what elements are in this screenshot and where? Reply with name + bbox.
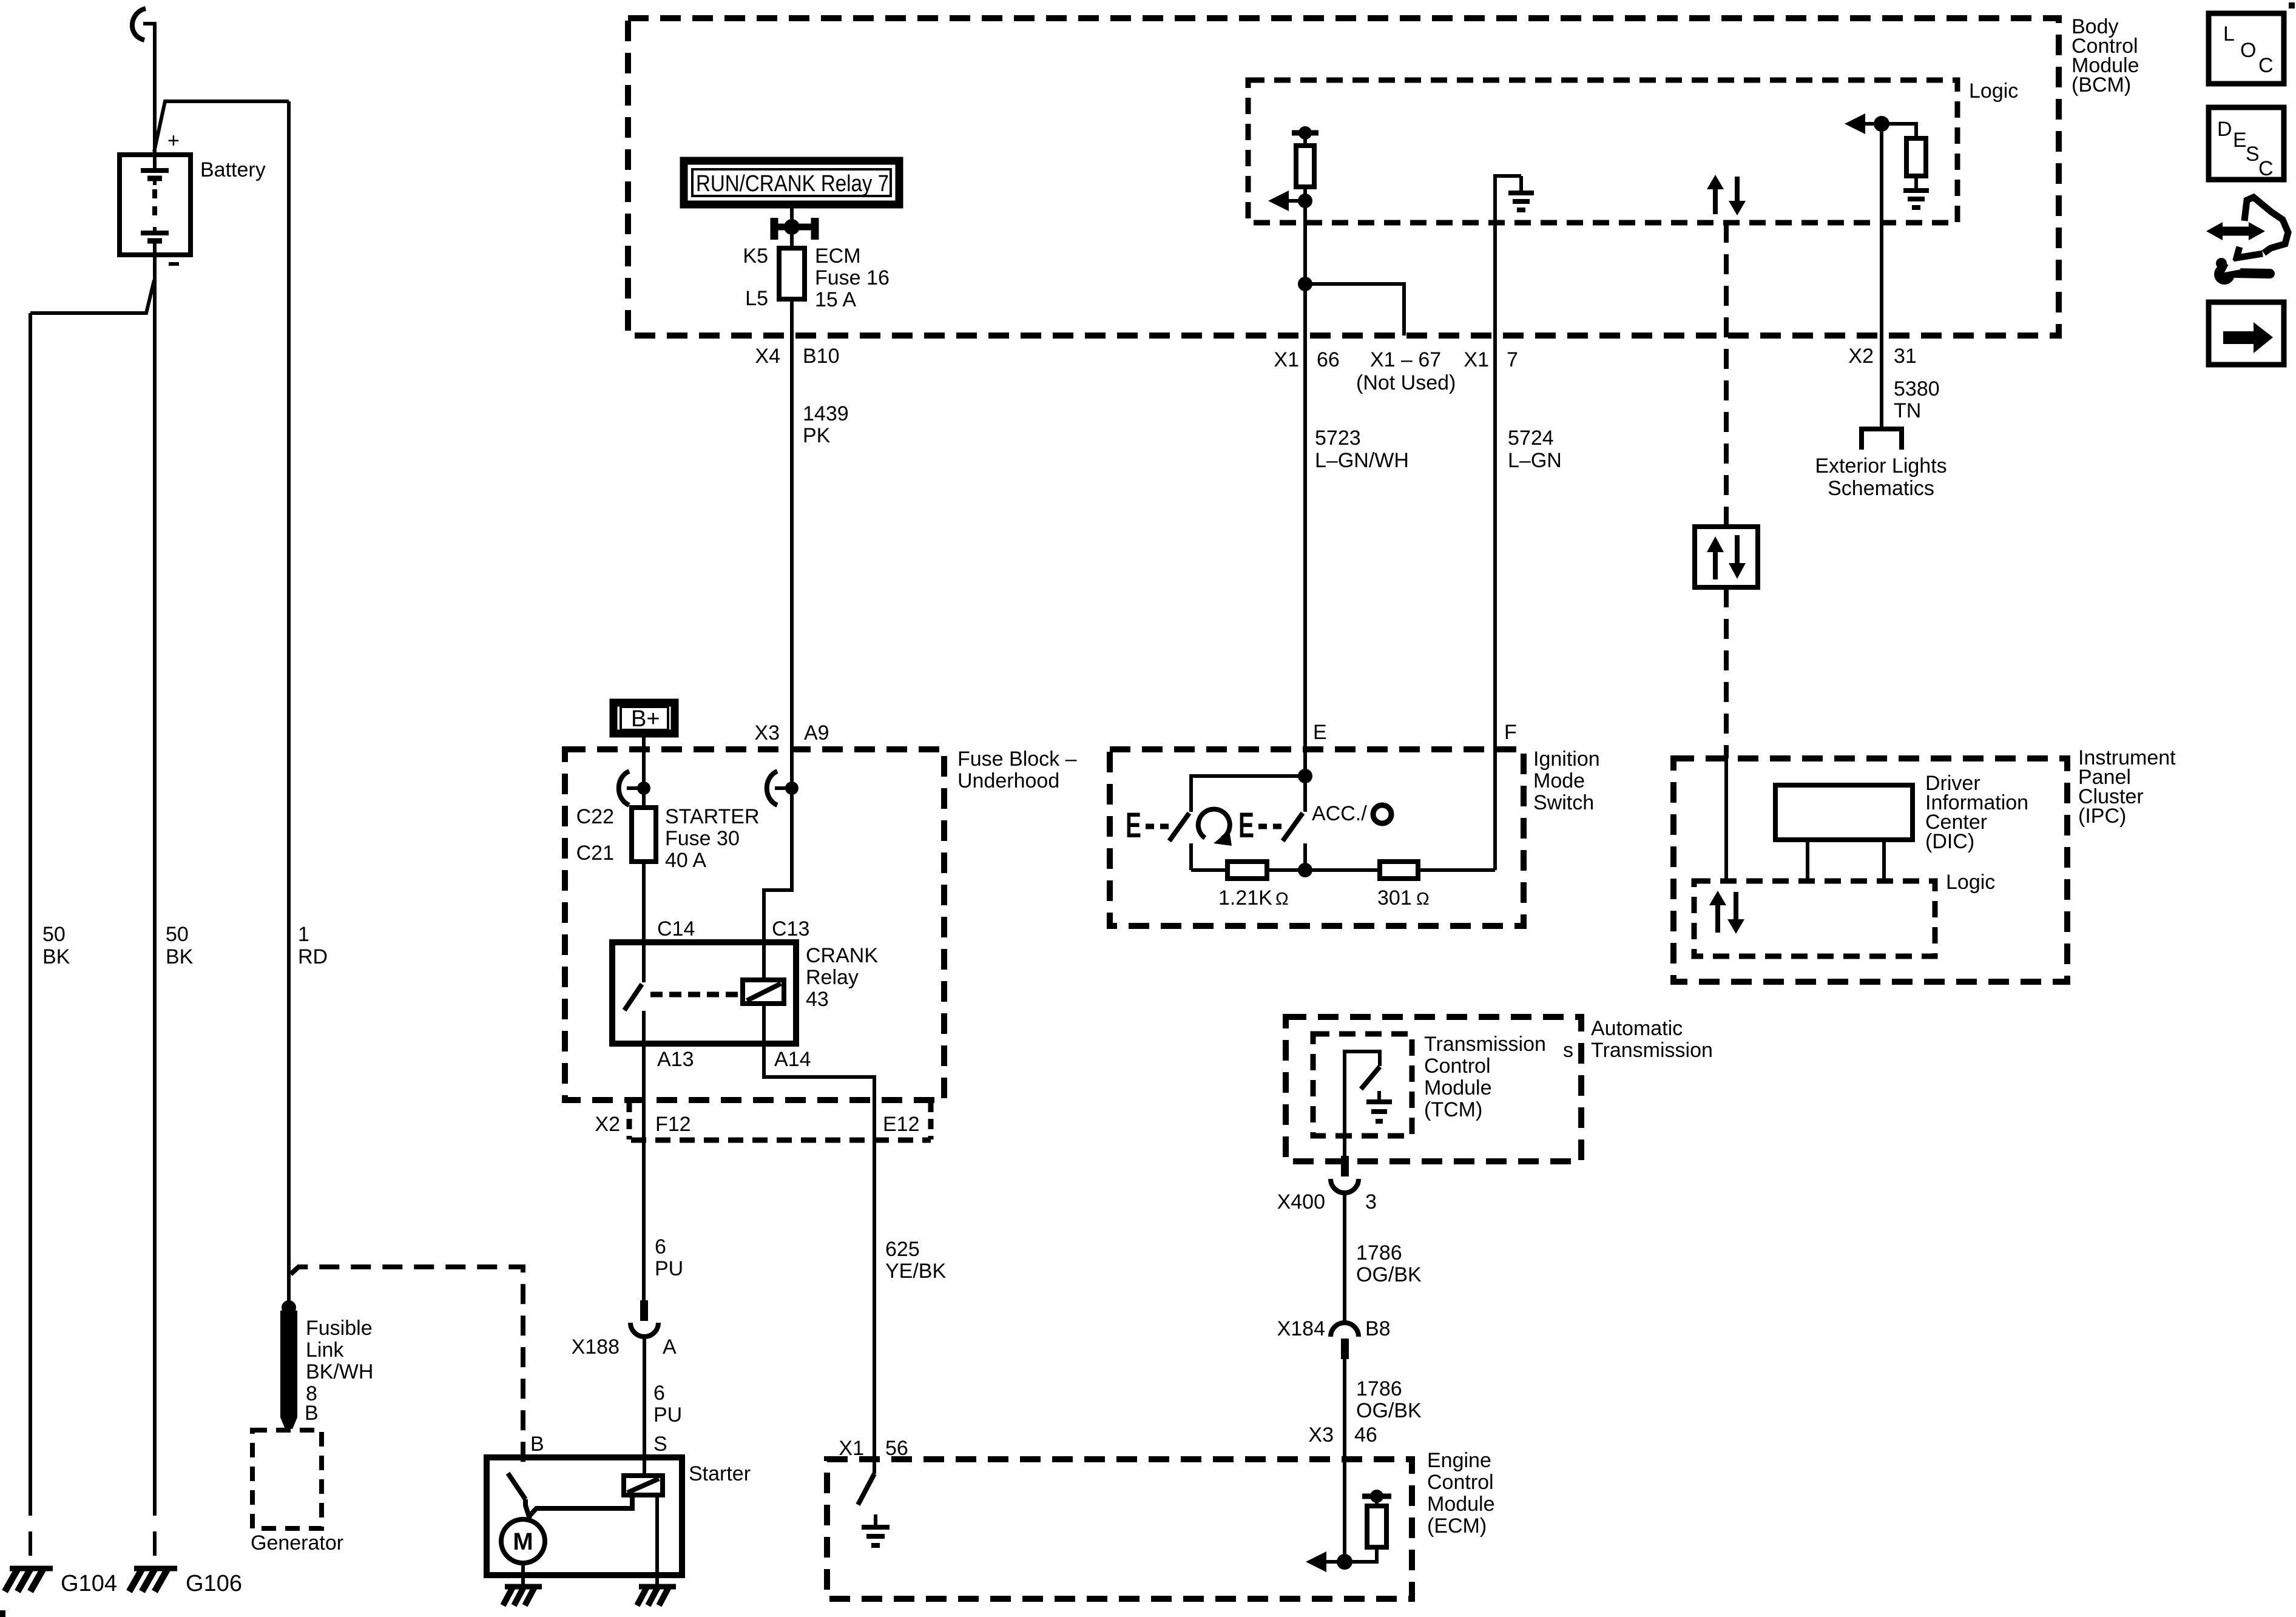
automatic transmission dashed box bbox=[1286, 1017, 1581, 1161]
resistor pull-up (ECM input 46) bbox=[1345, 1490, 1391, 1562]
svg-text:E: E bbox=[1238, 806, 1254, 845]
wire A14 from coil with jog to E12 bbox=[764, 1004, 874, 1140]
svg-text:Transmission: Transmission bbox=[1591, 1039, 1713, 1062]
icon DESC box bbox=[2209, 107, 2284, 180]
svg-text:Engine: Engine bbox=[1427, 1449, 1491, 1472]
battery - terminal label bbox=[169, 262, 179, 266]
serial data arrows (IPC logic) bbox=[1709, 891, 1744, 934]
wire motor to case ground bbox=[521, 1563, 525, 1586]
svg-text:50: 50 bbox=[42, 923, 66, 946]
resistor 1.21K bbox=[1227, 862, 1267, 879]
svg-text:F12: F12 bbox=[655, 1113, 691, 1136]
svg-text:Relay: Relay bbox=[806, 966, 859, 989]
relay switch bottom contact stub bbox=[642, 1011, 646, 1044]
svg-text:43: 43 bbox=[806, 988, 829, 1011]
svg-text:Fuse 30: Fuse 30 bbox=[665, 827, 740, 850]
ground starter solenoid bbox=[637, 1587, 676, 1605]
relay name label bbox=[806, 944, 878, 1011]
svg-text:(Not Used): (Not Used) bbox=[1356, 371, 1456, 394]
svg-text:STARTER: STARTER bbox=[665, 805, 760, 828]
svg-text:M: M bbox=[513, 1528, 533, 1555]
svg-text:Logic: Logic bbox=[1946, 871, 1995, 894]
ECM internal switch to ground bbox=[858, 1474, 874, 1505]
icon arrow box bbox=[2209, 302, 2284, 365]
svg-text:B8: B8 bbox=[1365, 1317, 1391, 1340]
svg-text:E: E bbox=[1126, 806, 1141, 845]
svg-text:Fuse Block –: Fuse Block – bbox=[957, 748, 1077, 771]
svg-text:L–GN: L–GN bbox=[1508, 449, 1562, 472]
wire E branch to run contact bbox=[1191, 776, 1305, 812]
icon LOC box bbox=[2209, 13, 2284, 84]
svg-text:(IPC): (IPC) bbox=[2078, 805, 2126, 828]
relay switch blade bbox=[624, 984, 642, 1010]
svg-text:1: 1 bbox=[298, 923, 309, 946]
svg-text:L–GN/WH: L–GN/WH bbox=[1315, 449, 1409, 472]
fuse block label bbox=[957, 748, 1077, 792]
svg-text:E: E bbox=[1313, 721, 1327, 744]
svg-text:YE/BK: YE/BK bbox=[885, 1260, 946, 1283]
svg-text:Ω: Ω bbox=[1416, 890, 1430, 909]
svg-text:(BCM): (BCM) bbox=[2071, 73, 2131, 96]
svg-text:(TCM): (TCM) bbox=[1424, 1098, 1482, 1121]
wire relay to ECM fuse bbox=[790, 208, 794, 248]
BCM label bbox=[2071, 15, 2139, 96]
svg-text:Module: Module bbox=[1424, 1076, 1492, 1099]
node junction X1-67 stub bbox=[1298, 277, 1312, 291]
ground TCM internal bbox=[1366, 1091, 1392, 1121]
svg-text:F: F bbox=[1504, 721, 1517, 744]
BCM logic dashed box bbox=[1248, 80, 1957, 223]
svg-text:66: 66 bbox=[1317, 348, 1340, 371]
wire DIC leg right bbox=[1882, 840, 1886, 881]
svg-text:X400: X400 bbox=[1277, 1190, 1325, 1214]
node junction BCM input 66 bbox=[1298, 194, 1312, 208]
wire acc contact lower stub bbox=[1303, 843, 1307, 870]
svg-text:X184: X184 bbox=[1277, 1317, 1325, 1340]
svg-text:Generator: Generator bbox=[251, 1531, 343, 1555]
transmission control module dashed box bbox=[1313, 1034, 1412, 1136]
wire E down to acc contact bbox=[1303, 776, 1307, 812]
svg-text:X3: X3 bbox=[754, 721, 780, 744]
svg-text:625: 625 bbox=[885, 1238, 920, 1261]
wire BCM 31 down bbox=[1880, 124, 1883, 428]
svg-text:C14: C14 bbox=[657, 917, 695, 940]
battery internal plates bbox=[141, 155, 169, 255]
svg-text:50: 50 bbox=[166, 923, 189, 946]
icon wrench bbox=[2214, 258, 2270, 285]
battery Battery bbox=[120, 155, 191, 255]
svg-text:15 A: 15 A bbox=[815, 288, 856, 311]
bus tap connector at C22 bbox=[619, 771, 650, 805]
svg-text:1786: 1786 bbox=[1356, 1241, 1402, 1264]
label exterior lights schematics bbox=[1815, 454, 1947, 500]
resistor label 1.21K ohm bbox=[1218, 886, 1289, 910]
svg-text:s: s bbox=[1563, 1039, 1573, 1062]
svg-text:+: + bbox=[167, 129, 180, 152]
svg-text:X1: X1 bbox=[1274, 348, 1299, 371]
svg-text:56: 56 bbox=[885, 1437, 908, 1460]
body control module dashed box bbox=[628, 18, 2059, 336]
wire A13/F12 down to X188 bbox=[642, 1044, 646, 1300]
ignition mode switch dashed box bbox=[1110, 749, 1524, 926]
wire resistor row left bbox=[1191, 868, 1227, 872]
svg-text:D: D bbox=[2217, 118, 2232, 141]
page corner mark top right bbox=[2289, 2, 2295, 8]
svg-text:G106: G106 bbox=[186, 1571, 242, 1596]
resistor 301 bbox=[1380, 862, 1418, 879]
DIC label bbox=[1925, 772, 2028, 853]
node junction E input bbox=[1298, 769, 1312, 783]
svg-text:Exterior Lights: Exterior Lights bbox=[1815, 454, 1947, 478]
inline connector X188 bbox=[630, 1300, 658, 1337]
svg-text:S: S bbox=[2246, 143, 2260, 166]
svg-text:PU: PU bbox=[655, 1257, 683, 1280]
svg-text:E12: E12 bbox=[883, 1113, 920, 1136]
TCM label bbox=[1424, 1033, 1546, 1121]
svg-text:(DIC): (DIC) bbox=[1925, 830, 1974, 853]
wire jog battery positive to 1 RD feed bbox=[154, 101, 289, 152]
motor M bbox=[501, 1519, 545, 1563]
svg-text:Switch: Switch bbox=[1533, 791, 1594, 814]
svg-text:Starter: Starter bbox=[689, 1462, 751, 1485]
svg-text:K5: K5 bbox=[743, 245, 768, 268]
svg-text:X4: X4 bbox=[755, 345, 780, 368]
svg-text:A: A bbox=[663, 1335, 677, 1359]
svg-text:Automatic: Automatic bbox=[1591, 1017, 1683, 1040]
svg-text:Underhood: Underhood bbox=[957, 769, 1059, 792]
icon diagnostic hand with arrow bbox=[2206, 197, 2288, 258]
ground BCM internal (input 7) bbox=[1495, 176, 1534, 336]
svg-text:6: 6 bbox=[655, 1235, 666, 1258]
svg-text:Ω: Ω bbox=[1275, 890, 1289, 909]
svg-text:5723: 5723 bbox=[1315, 427, 1361, 450]
wire hook to battery positive bbox=[143, 24, 155, 155]
svg-text:OG/BK: OG/BK bbox=[1356, 1263, 1422, 1286]
svg-text:PK: PK bbox=[803, 424, 831, 447]
wire resistor row middle bbox=[1267, 868, 1380, 872]
ground BCM internal (output 31) bbox=[1903, 191, 1929, 208]
wire run contact lower stub bbox=[1189, 843, 1193, 870]
svg-text:ACC./: ACC./ bbox=[1312, 802, 1367, 825]
generator dashed box bbox=[252, 1430, 322, 1528]
starter blade to motor lead bbox=[525, 1499, 530, 1519]
wire A9 down with jog to C13 bbox=[764, 788, 792, 980]
wire battery negative vertical to G106 bbox=[153, 255, 157, 1491]
svg-text:B: B bbox=[530, 1433, 544, 1456]
svg-text:X2: X2 bbox=[595, 1113, 620, 1136]
svg-text:B+: B+ bbox=[631, 706, 660, 732]
svg-text:BK: BK bbox=[42, 945, 70, 968]
engine control module dashed box bbox=[827, 1459, 1412, 1599]
switch run contact blade bbox=[1169, 813, 1189, 841]
serial data arrows (BCM logic) bbox=[1707, 175, 1746, 215]
svg-text:X1: X1 bbox=[839, 1437, 864, 1460]
svg-text:C: C bbox=[2258, 157, 2274, 180]
svg-text:6: 6 bbox=[653, 1382, 665, 1405]
svg-text:L5: L5 bbox=[745, 287, 768, 310]
wire X400 to X184 bbox=[1343, 1193, 1346, 1323]
svg-text:46: 46 bbox=[1354, 1423, 1377, 1447]
svg-text:3: 3 bbox=[1365, 1190, 1377, 1214]
wire X184 to ECM 46 bbox=[1343, 1359, 1346, 1562]
wire fuse to crank relay C14 bbox=[642, 862, 646, 982]
wire L5 to X4 B10 bbox=[790, 299, 794, 788]
ignition mode switch label bbox=[1533, 748, 1600, 814]
svg-text:(ECM): (ECM) bbox=[1427, 1514, 1487, 1538]
wire serial data dashed (BCM to symbol) bbox=[1724, 223, 1729, 527]
svg-text:5724: 5724 bbox=[1508, 427, 1554, 450]
ground G104 bbox=[5, 1568, 53, 1592]
relay output bus bracket bbox=[774, 218, 815, 240]
ECM label bbox=[1427, 1449, 1495, 1538]
serial data two-way box symbol bbox=[1695, 527, 1758, 587]
svg-text:Control: Control bbox=[1424, 1055, 1491, 1078]
starter solenoid coil bbox=[624, 1476, 663, 1495]
svg-text:A9: A9 bbox=[804, 721, 829, 744]
TCM internal switch bbox=[1345, 1052, 1380, 1156]
wire 1 RD vertical bbox=[287, 101, 291, 1306]
svg-text:A14: A14 bbox=[774, 1048, 811, 1071]
relay CRANK Relay 43 box bbox=[612, 942, 796, 1044]
inline connector X400 bbox=[1331, 1156, 1359, 1193]
off-page hook connector (battery positive feed) bbox=[132, 8, 146, 40]
rotation arrow symbol bbox=[1198, 809, 1232, 846]
svg-text:5380: 5380 bbox=[1894, 377, 1940, 400]
symbol off position ring bbox=[1373, 805, 1391, 823]
node junction ECM input 46 bbox=[1337, 1554, 1352, 1570]
svg-text:RUN/CRANK Relay 7: RUN/CRANK Relay 7 bbox=[696, 171, 889, 197]
svg-text:Link: Link bbox=[306, 1338, 344, 1362]
svg-text:31: 31 bbox=[1894, 345, 1917, 368]
svg-text:Fuse 16: Fuse 16 bbox=[815, 266, 890, 289]
relay label box RUN/CRANK Relay 7 bbox=[684, 161, 899, 204]
fusible link label bbox=[306, 1317, 373, 1405]
wire F up to BCM bbox=[1493, 336, 1497, 870]
svg-text:X1 – 67: X1 – 67 bbox=[1370, 348, 1441, 371]
svg-text:B: B bbox=[305, 1402, 319, 1425]
svg-text:O: O bbox=[2240, 39, 2256, 62]
svg-text:B10: B10 bbox=[803, 345, 840, 368]
wire DIC leg left bbox=[1806, 840, 1809, 881]
svg-text:TN: TN bbox=[1894, 399, 1921, 422]
IPC logic dashed box bbox=[1694, 881, 1935, 956]
switch acc contact blade bbox=[1283, 813, 1303, 841]
fuse STARTER Fuse 30 40 A bbox=[632, 808, 656, 862]
automatic transmission label bbox=[1591, 1017, 1713, 1062]
svg-text:Module: Module bbox=[1427, 1493, 1495, 1516]
svg-text:X188: X188 bbox=[572, 1335, 620, 1359]
svg-text:C13: C13 bbox=[772, 917, 809, 940]
svg-text:Schematics: Schematics bbox=[1828, 477, 1934, 500]
resistor label 301 ohm bbox=[1377, 886, 1430, 910]
fuse block - underhood dashed box bbox=[565, 749, 944, 1100]
relay actuation dashed link bbox=[650, 992, 741, 998]
svg-text:ECM: ECM bbox=[815, 245, 861, 268]
wire serial data inside IPC bbox=[1724, 758, 1728, 881]
ground ECM internal (56) bbox=[862, 1514, 890, 1545]
svg-text:X2: X2 bbox=[1848, 345, 1874, 368]
svg-text:CRANK: CRANK bbox=[806, 944, 878, 967]
wire BCM 66 down bbox=[1303, 201, 1307, 776]
svg-text:C: C bbox=[2258, 54, 2274, 77]
arrow BCM logic output bbox=[1845, 113, 1882, 134]
svg-text:7: 7 bbox=[1507, 348, 1518, 371]
svg-text:Mode: Mode bbox=[1533, 769, 1585, 792]
wire unfused battery cable (dashed) to starter B bbox=[291, 1267, 523, 1471]
arrow ECM logic input bbox=[1306, 1551, 1345, 1572]
svg-text:G104: G104 bbox=[61, 1571, 117, 1596]
resistor pull-up (BCM output 31) bbox=[1874, 116, 1926, 191]
svg-text:Battery: Battery bbox=[200, 158, 266, 181]
relay coil bbox=[743, 980, 784, 1004]
bus tap connector at A9 bbox=[767, 771, 799, 805]
ground G106 bbox=[129, 1568, 177, 1592]
svg-text:Control: Control bbox=[1427, 1471, 1494, 1494]
svg-text:C21: C21 bbox=[576, 842, 614, 865]
svg-text:Transmission: Transmission bbox=[1424, 1033, 1546, 1056]
svg-text:Ignition: Ignition bbox=[1533, 748, 1600, 771]
svg-text:1786: 1786 bbox=[1356, 1377, 1402, 1400]
svg-text:X1: X1 bbox=[1464, 348, 1489, 371]
svg-text:OG/BK: OG/BK bbox=[1356, 1399, 1422, 1422]
svg-text:BK/WH: BK/WH bbox=[306, 1360, 373, 1383]
svg-text:40 A: 40 A bbox=[665, 849, 706, 872]
instrument panel cluster dashed box bbox=[1673, 758, 2067, 982]
wire resistor row right to F bbox=[1418, 868, 1495, 872]
wire serial data dashed (symbol to IPC) bbox=[1724, 587, 1729, 758]
switch actuator E (left) bbox=[1126, 806, 1175, 845]
node junction resistor row bbox=[1298, 863, 1312, 877]
DIC box bbox=[1775, 785, 1913, 840]
wire jog battery negative to G104 run bbox=[30, 280, 154, 313]
switch actuator E (right) bbox=[1238, 806, 1281, 845]
svg-text:RD: RD bbox=[298, 945, 328, 968]
svg-text:E: E bbox=[2233, 129, 2247, 152]
svg-text:Logic: Logic bbox=[1969, 79, 2018, 103]
arrow BCM logic input bbox=[1268, 191, 1305, 211]
fuse value label bbox=[665, 805, 760, 872]
svg-text:L: L bbox=[2223, 22, 2235, 46]
IPC label bbox=[2078, 746, 2176, 828]
wire B+ to starter fuse bbox=[642, 737, 646, 808]
off-page bracket to exterior lights bbox=[1862, 429, 1902, 450]
page corner mark bottom left bbox=[0, 1610, 5, 1617]
node junction at fusible link bbox=[282, 1300, 296, 1315]
fusible link BK/WH 8 bbox=[280, 1311, 297, 1429]
node B+ label box bbox=[613, 703, 675, 734]
svg-text:1.21K: 1.21K bbox=[1218, 886, 1272, 910]
svg-text:S: S bbox=[653, 1433, 667, 1456]
wire X188 to starter S bbox=[643, 1337, 646, 1476]
svg-text:Fusible: Fusible bbox=[306, 1317, 373, 1340]
wire E12 to ECM 56 bbox=[873, 1140, 876, 1474]
wire solenoid to case ground bbox=[655, 1495, 659, 1586]
svg-text:A13: A13 bbox=[657, 1048, 694, 1071]
wire G104 ground run bbox=[29, 313, 32, 1491]
ground starter motor bbox=[503, 1587, 542, 1605]
wire solenoid output to motor bbox=[528, 1495, 632, 1517]
inline connector X184 bbox=[1331, 1323, 1359, 1359]
fuse ECM Fuse 16 15 A bbox=[779, 248, 805, 299]
svg-text:X3: X3 bbox=[1308, 1423, 1334, 1447]
svg-text:C22: C22 bbox=[576, 805, 614, 828]
fuse value label bbox=[815, 245, 890, 311]
wire stub to X1-67 not used bbox=[1305, 284, 1404, 336]
starter switch blade bbox=[508, 1473, 525, 1499]
svg-text:301: 301 bbox=[1377, 886, 1412, 910]
starter box bbox=[487, 1457, 682, 1575]
svg-text:PU: PU bbox=[653, 1403, 682, 1426]
connector X2 strip bbox=[629, 1102, 931, 1140]
svg-text:1439: 1439 bbox=[803, 402, 849, 425]
resistor pull-up (BCM input 66) bbox=[1292, 126, 1319, 201]
svg-text:BK: BK bbox=[166, 945, 194, 968]
